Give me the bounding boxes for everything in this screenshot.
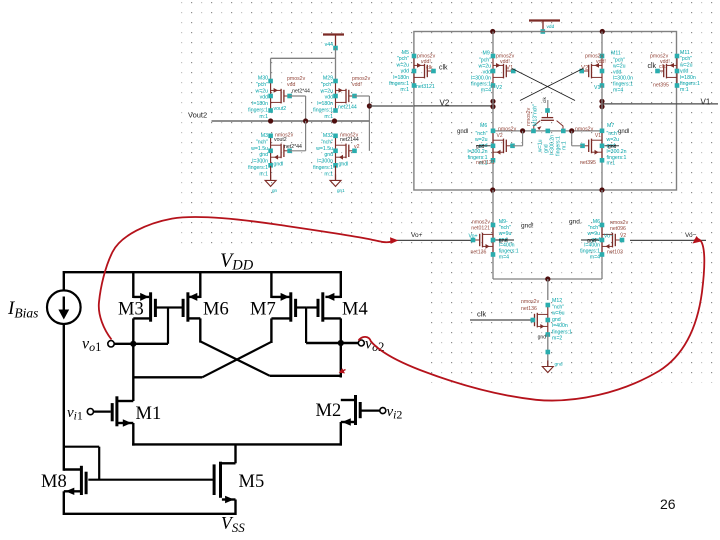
svg-text:net2*44: net2*44: [284, 144, 302, 150]
svg-text:M5: M5: [402, 50, 409, 56]
svg-text:net395: net395: [653, 83, 669, 89]
svg-text:M1: M1: [136, 404, 162, 424]
node V1 junctions: [599, 99, 604, 109]
svg-text:vdd!: vdd!: [500, 59, 510, 65]
svg-text:"pch": "pch": [256, 82, 268, 88]
transistor M29: [333, 79, 357, 113]
transistor M7 nmos: [580, 129, 604, 163]
svg-text:w=6u: w=6u: [552, 311, 565, 317]
svg-text:M6: M6: [480, 123, 487, 129]
label vout2 net: [274, 106, 287, 112]
wire Ibias bottom: [63, 324, 65, 471]
svg-text:net0121: net0121: [476, 160, 495, 166]
svg-text:w=2u: w=2u: [396, 62, 409, 68]
svg-text:m=2: m=2: [552, 336, 562, 342]
latch cell outline box: [414, 32, 677, 191]
wire Vo- leg: [601, 190, 603, 279]
svg-text:m=4: m=4: [590, 255, 600, 261]
svg-text:net2*44: net2*44: [292, 89, 310, 95]
svg-text:gndl: gndl: [339, 162, 349, 168]
svg-text:l=400n: l=400n: [552, 323, 568, 329]
wire M30 source: [270, 58, 272, 81]
label nmos2v M3: [274, 133, 294, 144]
wire M6 gate tie: [513, 131, 523, 146]
svg-text:l=300n: l=300n: [317, 159, 333, 165]
label M3 properties: [248, 133, 268, 177]
label gnd bulk M8b: [569, 219, 599, 245]
svg-text:clk: clk: [659, 64, 666, 70]
svg-text:net395: net395: [580, 160, 596, 166]
transistor M9b nmos: [471, 223, 496, 257]
label M9b properties: [499, 219, 519, 261]
wire tail bus: [493, 278, 602, 280]
svg-text:gnd: gnd: [538, 335, 547, 341]
svg-text:Vo−: Vo−: [685, 232, 697, 239]
wire M3 source: [270, 166, 272, 180]
svg-text:m:1: m:1: [680, 87, 689, 93]
label IBias: [7, 298, 38, 321]
page number: [660, 496, 676, 512]
svg-text:nmos2v: nmos2v: [526, 107, 532, 126]
svg-text:m:1: m:1: [607, 161, 616, 167]
wire tail drop: [547, 279, 549, 300]
svg-text:"pch": "pch": [321, 82, 333, 88]
svg-text:V2: V2: [496, 85, 502, 91]
label M29 properties: [313, 76, 333, 120]
transistor M9 pmos: [491, 54, 516, 88]
svg-text:m:1: m:1: [259, 171, 268, 177]
wire right latch leg: [601, 86, 603, 191]
svg-text:l=180n: l=180n: [317, 101, 333, 107]
label nmos2v M7: [575, 127, 601, 140]
svg-text:vdd!: vdd!: [596, 59, 606, 65]
svg-text:vdd!: vdd!: [352, 82, 362, 88]
svg-text:v44: v44: [325, 42, 333, 48]
label M7 properties: [607, 131, 627, 167]
label vo2: [365, 336, 384, 355]
svg-text:m:1: m:1: [562, 141, 568, 150]
ground under M12: [542, 361, 563, 373]
transistor M2: [341, 395, 380, 446]
node net2144 junction: [367, 103, 372, 108]
label M5: [239, 472, 265, 492]
svg-text:vout2: vout2: [274, 137, 287, 143]
svg-text:fingers:1: fingers:1: [680, 81, 700, 87]
power symbol vdd top: [529, 21, 560, 34]
svg-text:gnd: gnd: [476, 144, 485, 150]
red arrow tick at vo2 branch: [339, 368, 346, 373]
svg-text:fingers:1: fingers:1: [389, 81, 409, 87]
label clk M13: [648, 63, 666, 70]
label M32 properties: [313, 133, 333, 177]
svg-text:l=300n: l=300n: [252, 159, 268, 165]
svg-text:M11: M11: [611, 51, 621, 57]
label net2144: [338, 105, 357, 111]
wire VDD rail: [64, 271, 341, 273]
wire M8 diode tie: [64, 447, 99, 480]
label pmos2v M5: [417, 54, 436, 66]
transistor M7: [271, 271, 306, 343]
wire M9p source: [492, 32, 494, 57]
svg-text:fingers:1: fingers:1: [552, 329, 572, 335]
label vo1: [82, 336, 101, 355]
wire M12 source: [546, 335, 551, 367]
transistor M6 nmos: [491, 129, 515, 163]
svg-text:M5: M5: [239, 472, 265, 492]
wire left latch leg: [492, 86, 494, 191]
svg-text:M3: M3: [118, 300, 144, 320]
svg-text:M13“nch”: M13“nch”: [533, 104, 539, 126]
svg-text:m:1: m:1: [324, 171, 333, 177]
svg-text:M9: M9: [483, 51, 490, 57]
svg-text:M11: M11: [680, 50, 690, 56]
svg-text:Vo+: Vo+: [411, 232, 423, 239]
svg-text:gndl: gndl: [618, 129, 629, 135]
svg-text:v2: v2: [354, 144, 360, 150]
svg-text:"nch": "nch": [256, 139, 268, 145]
svg-text:m:1: m:1: [259, 114, 268, 120]
svg-text:Vo−: Vo−: [604, 233, 613, 239]
svg-text:M6: M6: [203, 300, 229, 320]
wire M29 gate to net: [355, 96, 370, 151]
svg-text:V2: V2: [440, 99, 450, 108]
label M6: [203, 300, 229, 320]
transistor M30: [268, 79, 292, 113]
node tail junction: [545, 276, 550, 281]
label M4: [342, 300, 368, 320]
svg-text:m:1: m:1: [324, 114, 333, 120]
red annotation curve vo1 to Vo+: [99, 217, 399, 339]
svg-text:clk: clk: [542, 97, 548, 103]
node latch bottom junctions: [490, 187, 605, 192]
svg-text:V1: V1: [594, 85, 600, 91]
svg-text:vout2: vout2: [274, 106, 287, 112]
ground under M32: [330, 174, 345, 193]
wire M1 drain: [132, 344, 134, 401]
wire Vo+ net: [397, 232, 473, 240]
label nmos2v M32: [340, 133, 359, 144]
label V2 gate of M11: [581, 66, 589, 72]
wire equalizer row: [493, 130, 602, 132]
svg-text:gnd: gnd: [552, 317, 561, 323]
svg-text:nmos2v: nmos2v: [521, 299, 540, 305]
wire M7 gate tie: [572, 131, 582, 146]
svg-text:m=4: m=4: [481, 88, 491, 94]
label net244 gate: [284, 144, 302, 150]
svg-text:vdd: vdd: [401, 69, 409, 75]
svg-text:V1: V1: [595, 133, 601, 139]
svg-text:w=2u: w=2u: [255, 88, 268, 94]
node vi1: [87, 409, 93, 415]
wire M30 gate to node: [290, 96, 306, 121]
wire M6 drain cross: [200, 341, 342, 375]
wire clk input: [470, 310, 533, 321]
svg-text:gnd: gnd: [608, 144, 617, 150]
wire buffer output to latch: [369, 105, 414, 107]
svg-text:gnd!: gnd!: [521, 223, 534, 230]
node equalizer junctions: [520, 128, 574, 133]
label nmos2v M9b: [471, 220, 490, 232]
wire M32 source: [335, 166, 337, 180]
label M11 properties: [611, 51, 633, 94]
label vi2: [387, 404, 403, 422]
transistor M13 equalizer: [531, 108, 565, 133]
label net103: [607, 233, 626, 256]
svg-text:gnd: gnd: [259, 152, 268, 158]
label nmos2v M6: [497, 127, 517, 140]
svg-text:w=1.5u: w=1.5u: [316, 146, 333, 152]
wire V2 output net: [414, 99, 493, 108]
label M8: [41, 472, 67, 492]
svg-text:V2: V2: [497, 133, 503, 139]
label v2 gate: [354, 144, 360, 150]
wire M29 source: [335, 58, 337, 81]
label Vo+ cyan: [469, 233, 478, 239]
svg-text:m=4: m=4: [613, 88, 623, 94]
svg-text:"nch": "nch": [321, 139, 333, 145]
label M13 properties: [680, 50, 700, 93]
label pmos2v M29: [352, 76, 371, 88]
svg-text:fingers:1: fingers:1: [248, 108, 268, 114]
red annotation curve vo2 to Vo-: [359, 236, 705, 401]
svg-text:Vo+: Vo+: [469, 233, 478, 239]
label M6 name: [457, 123, 487, 135]
svg-text:w=2u: w=2u: [680, 62, 693, 68]
power symbol v44: [323, 35, 344, 51]
svg-text:vdd: vdd: [547, 24, 555, 30]
label net136: [471, 250, 487, 256]
label pmos2v: [287, 76, 306, 88]
label net395 p: [653, 83, 669, 89]
label nmos2v M12: [521, 299, 540, 312]
wire M11p source: [601, 32, 603, 57]
label M12 properties: [552, 298, 572, 342]
label pmos2v M13: [650, 54, 670, 66]
svg-text:l=180n: l=180n: [680, 75, 696, 81]
label M9 properties: [471, 51, 491, 94]
wire V1 output net: [602, 98, 718, 107]
svg-text:gnd: gnd: [587, 238, 596, 244]
svg-text:"pch": "pch": [397, 56, 409, 62]
label V1 net under M11: [594, 85, 600, 91]
svg-text:clk: clk: [648, 63, 657, 70]
wire M3 M6 gate tie: [167, 308, 169, 344]
svg-text:M29: M29: [323, 76, 333, 82]
label pmos2v M11: [585, 54, 606, 66]
label M3: [118, 300, 144, 320]
wire vout2 bus: [188, 111, 369, 122]
label net2121 M6: [476, 160, 495, 166]
transistor M11 pmos: [579, 54, 604, 88]
svg-text:M12: M12: [552, 298, 562, 304]
ground under M3: [265, 174, 277, 193]
label M2: [316, 401, 342, 421]
svg-text:fingers:1: fingers:1: [313, 108, 333, 114]
svg-text:26: 26: [660, 496, 676, 512]
label equalizer vertical texts: [526, 97, 568, 156]
svg-text:gnd.: gnd.: [569, 219, 582, 226]
svg-text:clk: clk: [477, 310, 486, 319]
label V2 net under M9: [496, 85, 502, 91]
transistor M4: [306, 271, 341, 378]
wire Vo+ leg: [492, 190, 494, 279]
svg-text:vdd: vdd: [260, 95, 268, 101]
svg-text:vdd: vdd: [680, 69, 688, 75]
svg-text:net0121: net0121: [471, 226, 490, 232]
svg-text:l=180n: l=180n: [393, 75, 409, 81]
transistor M1: [94, 396, 134, 445]
svg-text:nmos2v: nmos2v: [498, 127, 517, 133]
label nmos2v M8b: [610, 220, 629, 232]
label net395 M7: [580, 160, 596, 166]
svg-text:w=2u: w=2u: [320, 88, 333, 94]
svg-text:M8: M8: [41, 472, 67, 492]
svg-text:fingers:1: fingers:1: [313, 165, 333, 171]
svg-text:clk: clk: [426, 65, 433, 71]
label VDD: [220, 250, 254, 274]
node V2 junctions: [490, 99, 495, 109]
svg-text:M30: M30: [258, 76, 268, 82]
label M6 properties: [467, 131, 487, 167]
svg-text:net136: net136: [471, 250, 487, 256]
wire cross couple gate A: [512, 69, 575, 101]
transistor M32: [333, 134, 357, 168]
node vo1: [108, 341, 168, 347]
label gndl M3: [274, 162, 284, 168]
wire vdd rail of buffer: [271, 48, 336, 58]
wire VSS rail: [64, 513, 236, 515]
label gnd bulk M9b: [495, 223, 534, 245]
label clk M5: [426, 65, 448, 72]
node vo2: [306, 340, 364, 346]
transistor M6: [168, 271, 200, 343]
transistor M12 tail: [531, 303, 551, 337]
wire M3 gate link: [290, 121, 306, 151]
label net2144 top: [292, 89, 310, 95]
svg-text:M7: M7: [607, 123, 614, 129]
svg-text:net103: net103: [607, 250, 623, 256]
svg-text:V1: V1: [701, 98, 711, 107]
label pmos2v M9: [496, 54, 515, 66]
svg-text:Vout2: Vout2: [188, 111, 207, 120]
wire M5 drain: [234, 444, 236, 463]
svg-text:M2: M2: [316, 401, 342, 421]
node vout2 junctions: [268, 118, 337, 123]
svg-text:gnd: gnd: [499, 238, 508, 244]
svg-text:gn: gn: [272, 188, 278, 193]
node vi2: [380, 408, 386, 414]
svg-text:"pch": "pch": [680, 56, 692, 62]
label VSS: [221, 513, 245, 535]
wire Ibias top: [63, 271, 65, 290]
svg-text:gn1: gn1: [337, 188, 345, 193]
svg-text:gndl: gndl: [457, 129, 468, 135]
svg-text:w=1.5u: w=1.5u: [251, 146, 268, 152]
svg-text:net096: net096: [610, 226, 626, 232]
label M7: [250, 300, 276, 320]
svg-text:vdd: vdd: [325, 95, 333, 101]
svg-text:M7: M7: [250, 300, 276, 320]
label gnd bulk M7: [605, 144, 620, 150]
svg-text:m:1: m:1: [400, 87, 409, 93]
label M8b properties: [580, 219, 600, 261]
svg-text:clk: clk: [439, 65, 448, 72]
transistor M5 precharge: [412, 54, 436, 88]
transistor M13 precharge: [655, 54, 679, 88]
label Vo- cyan: [604, 233, 613, 239]
svg-text:vdd: vdd: [287, 82, 295, 88]
svg-text:V2: V2: [620, 233, 626, 239]
label gndl M32: [339, 162, 349, 168]
label net3121: [416, 84, 435, 90]
svg-text:l=180n: l=180n: [252, 101, 268, 107]
svg-text:nmos2v: nmos2v: [575, 127, 594, 133]
node vdd rail junctions: [490, 29, 605, 34]
transistor M8b nmos: [600, 223, 625, 257]
wire M4 M7 gate tie: [305, 308, 307, 344]
svg-text:gndl: gndl: [274, 162, 284, 168]
transistor M3: [133, 271, 168, 345]
transistor M8: [64, 466, 86, 515]
svg-text:M3: M3: [261, 133, 268, 139]
label M1: [136, 404, 162, 424]
svg-text:M32: M32: [323, 133, 333, 139]
wire cross couple gate B: [520, 69, 583, 101]
wire Vo- net: [630, 232, 706, 240]
label M7 name: [607, 123, 629, 135]
wire M13 clk stem: [547, 100, 549, 111]
label M30 properties: [248, 76, 268, 120]
label gnd M12: [538, 335, 547, 341]
label V1 gate of M9: [506, 66, 514, 72]
svg-text:"nch": "nch": [552, 305, 564, 311]
svg-text:m=4: m=4: [499, 255, 509, 261]
wire M7 drain cross: [134, 342, 271, 378]
wire tail bus black: [132, 443, 342, 445]
svg-text:M4: M4: [342, 300, 368, 320]
current source IBias: [47, 290, 81, 324]
svg-text:fingers:1: fingers:1: [248, 165, 268, 171]
label vi1: [67, 405, 83, 423]
svg-text:net2144: net2144: [338, 105, 357, 111]
svg-text:gnd: gnd: [555, 362, 563, 368]
svg-text:gnd: gnd: [324, 152, 333, 158]
svg-text:net2144: net2144: [340, 137, 359, 143]
label M5 properties: [389, 50, 409, 93]
svg-text:net136: net136: [521, 306, 537, 312]
label gnd bulk M6: [476, 144, 491, 150]
transistor M3: [268, 134, 292, 168]
svg-text:net3121: net3121: [416, 84, 435, 90]
transistor M5: [88, 462, 235, 515]
